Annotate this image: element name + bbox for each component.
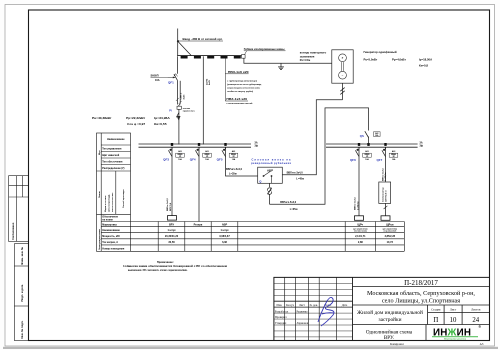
svg-text:А63: А63 xyxy=(178,150,181,153)
svg-text:число и кол-во жил: число и кол-во жил xyxy=(112,192,114,212)
svg-text:Силовая вилка на: Силовая вилка на xyxy=(252,158,292,162)
svg-text:Резерв: Резерв xyxy=(194,224,203,227)
svg-text:П-218/2017: П-218/2017 xyxy=(404,279,438,287)
svg-text:Cos φ =0,97: Cos φ =0,97 xyxy=(127,122,146,126)
svg-text:стир.машиной: стир.машиной xyxy=(383,230,396,233)
svg-text:ВРУ: ВРУ xyxy=(169,224,174,227)
svg-text:4х25: 4х25 xyxy=(182,94,185,100)
svg-text:Ток нагрев, А: Ток нагрев, А xyxy=(102,241,118,244)
svg-text:с металлических частей: с металлических частей xyxy=(226,102,253,105)
svg-text:Листов: Листов xyxy=(471,308,481,312)
svg-text:30,58: 30,58 xyxy=(168,241,175,244)
svg-text:Жилой дом индивидуальной: Жилой дом индивидуальной xyxy=(357,309,423,316)
svg-text:Rз=4 Ом: Rз=4 Ом xyxy=(300,59,311,62)
svg-text:Утвердил: Утвердил xyxy=(275,322,287,325)
svg-text:Московская область, Серпуховск: Московская область, Серпуховской р-он, xyxy=(367,290,475,297)
svg-text:QF5: QF5 xyxy=(217,158,223,162)
svg-text:А63: А63 xyxy=(392,150,395,153)
svg-text:QF1: QF1 xyxy=(168,81,174,85)
svg-text:(СИП): (СИП) xyxy=(206,79,208,85)
svg-text:Инженерные решения: Инженерные решения xyxy=(444,338,467,340)
svg-text:Согласовано: Согласовано xyxy=(11,222,15,240)
svg-text:Разработал: Разработал xyxy=(275,310,289,313)
svg-text:1 штук: 1 штук xyxy=(220,229,229,232)
svg-text:Ру=5,0кВт: Ру=5,0кВт xyxy=(364,57,378,61)
svg-text:2,14/1,71: 2,14/1,71 xyxy=(355,235,366,238)
svg-text:L=45м: L=45м xyxy=(296,177,304,180)
svg-text:Стабилизатор: Стабилизатор xyxy=(381,187,384,202)
svg-text:Ларионов: Ларионов xyxy=(297,322,309,325)
svg-text:(размещается по части трубопро: (размещается по части трубопровода, xyxy=(227,83,262,86)
svg-text:ВВГнг 5х6,0: ВВГнг 5х6,0 xyxy=(167,198,169,211)
svg-text:QF7: QF7 xyxy=(376,158,382,162)
svg-text:QF4: QF4 xyxy=(190,158,196,162)
svg-text:№ док.: № док. xyxy=(310,304,319,307)
svg-text:Мощность, кВт: Мощность, кВт xyxy=(102,235,121,238)
svg-text:L=25,0м: L=25,0м xyxy=(357,201,359,210)
svg-text:контур повторного: контур повторного xyxy=(300,51,327,54)
svg-text:Тип обесточения: Тип обесточения xyxy=(102,161,123,164)
svg-text:ВРУ-0,4: ВРУ-0,4 xyxy=(169,202,172,211)
svg-text:Электроприемники: Электроприемники xyxy=(99,229,101,250)
svg-text:застройки: застройки xyxy=(378,316,401,323)
svg-text:Наименование: Наименование xyxy=(107,138,125,141)
svg-text:на плане: на плане xyxy=(102,219,113,222)
svg-text:ВРУ.: ВРУ. xyxy=(384,335,394,341)
svg-text:Дата: Дата xyxy=(342,304,348,307)
svg-text:Рудненко: Рудненко xyxy=(297,310,309,313)
svg-text:А63: А63 xyxy=(205,150,208,153)
svg-text:4х25: 4х25 xyxy=(208,79,211,85)
svg-text:заземления: заземления xyxy=(300,55,315,58)
svg-text:Стадия: Стадия xyxy=(431,308,441,312)
svg-text:Изм.: Изм. xyxy=(277,304,283,307)
svg-text:Рн=40,38кВт: Рн=40,38кВт xyxy=(92,116,112,120)
svg-text:24: 24 xyxy=(472,317,479,324)
svg-text:Тип управления: Тип управления xyxy=(102,148,122,151)
svg-text:Лист: Лист xyxy=(299,304,306,307)
svg-text:Копировал: Копировал xyxy=(390,342,404,346)
svg-text:Взам. инв. №: Взам. инв. № xyxy=(20,247,24,265)
svg-text:QF6: QF6 xyxy=(350,158,356,162)
svg-text:выключения с ВУ с автоматич. о: выключения с ВУ с автоматич. отключ. пер… xyxy=(128,269,188,272)
svg-text:прямого вкл.: прямого вкл. xyxy=(183,111,196,113)
svg-text:1.Навеска замка обеспечивается: 1.Навеска замка обеспечивается блокировк… xyxy=(123,265,227,268)
svg-text:10,73: 10,73 xyxy=(387,241,394,244)
svg-text:Подп. и дата: Подп. и дата xyxy=(20,284,24,301)
svg-text:Примечание:: Примечание: xyxy=(157,260,174,264)
svg-text:Лист: Лист xyxy=(450,308,457,312)
svg-text:Iр=34,96А: Iр=34,96А xyxy=(154,116,170,120)
svg-text:QS: QS xyxy=(360,134,364,138)
svg-text:L=35м: L=35м xyxy=(229,173,237,176)
svg-text:ЩРсм: ЩРсм xyxy=(386,224,394,227)
svg-text:Номер помещения: Номер помещения xyxy=(102,247,125,250)
svg-text:3ф: 3ф xyxy=(255,145,258,148)
svg-text:ВВГнгх-5х4,0: ВВГнгх-5х4,0 xyxy=(280,201,297,204)
svg-text:1 штук: 1 штук xyxy=(167,229,176,232)
svg-text:с трубопровода канализации: с трубопровода канализации xyxy=(227,79,258,82)
svg-text:Маркировка: Маркировка xyxy=(102,223,117,226)
svg-text:SН05П: SН05П xyxy=(151,74,159,77)
svg-text:L=25,0м: L=25,0м xyxy=(385,172,387,181)
svg-text:теплым полом: теплым полом xyxy=(354,231,368,233)
svg-text:СНПТО-9 пт: СНПТО-9 пт xyxy=(386,190,388,202)
svg-text:Линия: Линия xyxy=(99,190,101,198)
svg-text:10: 10 xyxy=(450,317,457,324)
svg-text:Способ прокладки: Способ прокладки xyxy=(122,189,125,208)
svg-text:6,38: 6,38 xyxy=(222,241,227,244)
svg-text:Инв. № подл.: Инв. № подл. xyxy=(20,320,24,338)
svg-text:СИП-2: СИП-2 xyxy=(181,92,183,99)
svg-text:3,08/4,67: 3,08/4,67 xyxy=(219,235,230,238)
svg-text:А63: А63 xyxy=(365,150,368,153)
svg-text:Ки=0,55: Ки=0,55 xyxy=(154,122,167,126)
svg-text:ВВГнгх-3х4,0: ВВГнгх-3х4,0 xyxy=(287,171,304,174)
svg-text:L=35м: L=35м xyxy=(290,208,298,211)
svg-text:П: П xyxy=(433,317,438,324)
svg-text:ПВЗ-1х6 х20: ПВЗ-1х6 х20 xyxy=(228,71,250,74)
svg-text:2,88: 2,88 xyxy=(358,241,363,244)
svg-text:Наименование: Наименование xyxy=(102,229,120,232)
svg-text:ВВГнгх-5х4,0: ВВГнгх-5х4,0 xyxy=(226,168,243,171)
svg-text:10А: 10А xyxy=(155,79,160,82)
svg-text:Щит навесной: Щит навесной xyxy=(102,154,119,157)
svg-text:чтобы не сверху трубы): чтобы не сверху трубы) xyxy=(227,90,253,93)
svg-text:ЩРч: ЩРч xyxy=(357,224,363,227)
svg-text:Ввод ~380 В от сетевой орг.: Ввод ~380 В от сетевой орг. xyxy=(183,37,223,41)
svg-text:Проверил: Проверил xyxy=(275,316,287,319)
svg-text:АВР: АВР xyxy=(222,224,228,227)
svg-text:Гибкие изолированные шины: Гибкие изолированные шины xyxy=(244,48,285,51)
svg-text:Ки=0,8: Ки=0,8 xyxy=(419,63,428,67)
svg-text:Генератор однофазный: Генератор однофазный xyxy=(364,50,397,54)
svg-text:которая находится относительно: которая находится относительно зазем. xyxy=(227,88,260,90)
svg-text:20,30/31,20: 20,30/31,20 xyxy=(165,235,179,238)
svg-text:Iр=18,50А: Iр=18,50А xyxy=(419,57,432,61)
svg-text:Марка и сечение: Марка и сечение xyxy=(105,195,107,212)
svg-text:2,85/2,28: 2,85/2,28 xyxy=(385,235,396,238)
svg-text:Рр=4,0кВт: Рр=4,0кВт xyxy=(392,57,406,61)
svg-text:3ф: 3ф xyxy=(420,145,423,148)
svg-text:ВВГнг 3х2,5: ВВГнг 3х2,5 xyxy=(355,197,357,210)
svg-text:Рр=22,32кВт: Рр=22,32кВт xyxy=(126,116,146,120)
svg-text:QF3: QF3 xyxy=(163,158,169,162)
svg-text:PI: PI xyxy=(169,108,172,112)
svg-text:село Лишицы, ул.Спортивная: село Лишицы, ул.Спортивная xyxy=(382,298,460,305)
svg-text:Кол.уч: Кол.уч xyxy=(286,304,295,307)
svg-text:ПВЗ-1х6 х20: ПВЗ-1х6 х20 xyxy=(226,98,248,101)
svg-text:Распределение (У): Распределение (У) xyxy=(102,167,124,170)
svg-text:реверсивный рубильник: реверсивный рубильник xyxy=(251,161,291,165)
svg-text:А63: А63 xyxy=(232,150,235,153)
svg-text:кабеля (провода),: кабеля (провода), xyxy=(108,194,111,212)
svg-text:А3: А3 xyxy=(480,342,484,346)
svg-text:ВВГнг 3х2,5: ВВГнг 3х2,5 xyxy=(382,168,384,181)
